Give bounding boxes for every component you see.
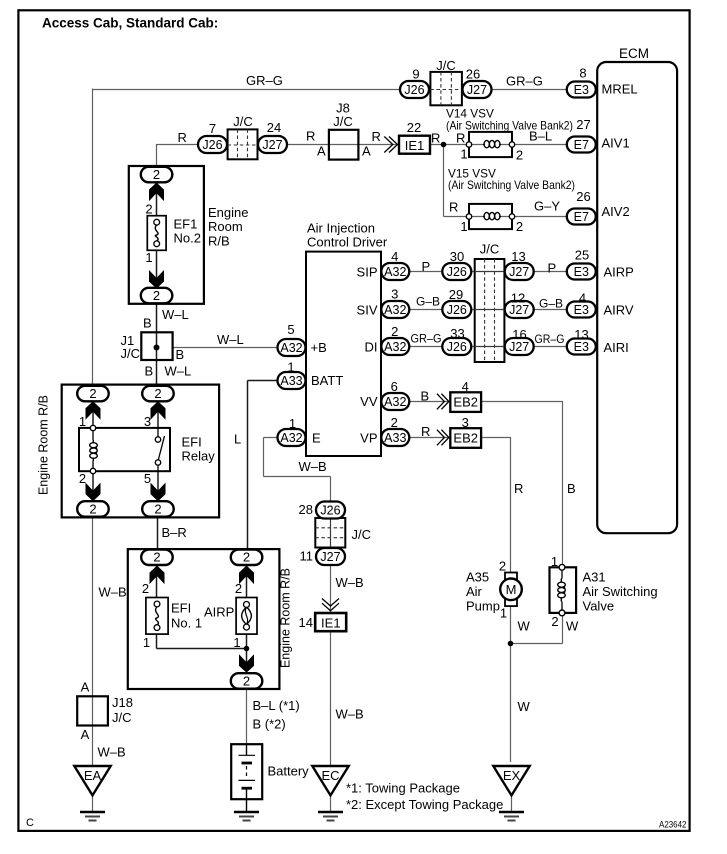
svg-text:A32: A32: [280, 431, 302, 445]
svg-text:Room: Room: [208, 219, 243, 234]
svg-text:P: P: [422, 259, 431, 274]
svg-text:A32: A32: [384, 340, 406, 354]
svg-text:6: 6: [391, 379, 398, 394]
svg-text:R: R: [421, 424, 430, 439]
svg-text:30: 30: [450, 249, 464, 264]
svg-text:W–L: W–L: [162, 307, 189, 322]
svg-text:J/C: J/C: [480, 242, 500, 257]
svg-text:Valve: Valve: [583, 599, 615, 614]
svg-text:VV: VV: [360, 394, 378, 409]
svg-text:J26: J26: [447, 303, 467, 317]
svg-text:2: 2: [153, 167, 160, 182]
svg-text:A32: A32: [384, 265, 406, 279]
svg-text:W–B: W–B: [336, 575, 364, 590]
svg-text:J27: J27: [320, 550, 340, 564]
svg-text:29: 29: [449, 287, 463, 302]
svg-text:J27: J27: [509, 265, 529, 279]
svg-text:1: 1: [460, 147, 467, 162]
svg-text:1: 1: [500, 606, 507, 621]
svg-text:*2: Except Towing Package: *2: Except Towing Package: [346, 797, 503, 812]
svg-text:1: 1: [551, 554, 558, 569]
svg-text:G–B: G–B: [539, 296, 563, 310]
svg-text:A32: A32: [384, 395, 406, 409]
svg-text:2: 2: [391, 415, 398, 430]
svg-text:IE1: IE1: [405, 138, 425, 153]
svg-text:B: B: [145, 363, 154, 378]
svg-text:E7: E7: [574, 210, 589, 224]
svg-text:Control Driver: Control Driver: [307, 235, 388, 250]
svg-text:W–B: W–B: [336, 707, 364, 722]
svg-text:Relay: Relay: [182, 449, 216, 464]
svg-text:Air: Air: [466, 584, 483, 599]
svg-text:2: 2: [79, 471, 86, 486]
svg-text:GR–G: GR–G: [535, 334, 565, 346]
svg-text:26: 26: [576, 189, 590, 204]
svg-text:9: 9: [412, 67, 419, 82]
svg-text:13: 13: [511, 249, 525, 264]
svg-text:R: R: [456, 131, 465, 146]
svg-text:7: 7: [209, 121, 216, 136]
svg-text:EB2: EB2: [453, 430, 478, 445]
svg-text:B: B: [176, 347, 185, 362]
svg-text:A33: A33: [384, 431, 406, 445]
svg-text:J18: J18: [112, 695, 133, 710]
svg-text:C: C: [26, 817, 34, 829]
svg-text:2: 2: [89, 386, 96, 401]
svg-text:A32: A32: [384, 303, 406, 317]
svg-text:(Air Switching Valve Bank2): (Air Switching Valve Bank2): [446, 119, 573, 133]
svg-text:J/C: J/C: [112, 710, 132, 725]
svg-text:R: R: [514, 481, 523, 496]
svg-text:AIV2: AIV2: [602, 204, 630, 219]
svg-text:13: 13: [574, 327, 588, 342]
svg-text:B: B: [567, 481, 576, 496]
svg-text:J26: J26: [447, 265, 467, 279]
svg-text:1: 1: [289, 416, 296, 431]
svg-text:1: 1: [145, 250, 152, 265]
svg-text:J27: J27: [262, 138, 282, 152]
svg-text:1: 1: [460, 219, 467, 234]
svg-text:2: 2: [154, 386, 161, 401]
svg-text:B (*2): B (*2): [253, 717, 286, 732]
svg-text:R/B: R/B: [208, 234, 230, 249]
svg-text:IE1: IE1: [321, 616, 341, 631]
svg-text:B–L: B–L: [529, 129, 552, 144]
svg-text:1: 1: [143, 635, 150, 650]
svg-text:J26: J26: [202, 138, 222, 152]
svg-text:4: 4: [579, 291, 586, 306]
svg-text:EA: EA: [84, 768, 102, 783]
svg-text:E: E: [312, 430, 321, 445]
svg-text:A: A: [362, 144, 371, 159]
svg-text:Air Injection: Air Injection: [307, 221, 375, 236]
svg-text:W–L: W–L: [165, 363, 192, 378]
svg-text:G–B: G–B: [416, 294, 440, 308]
svg-text:W–L: W–L: [217, 332, 244, 347]
svg-text:2: 2: [145, 202, 152, 217]
svg-text:J/C: J/C: [436, 58, 456, 73]
svg-text:W–B: W–B: [299, 459, 327, 474]
svg-text:11: 11: [300, 549, 314, 564]
svg-text:BATT: BATT: [311, 373, 343, 388]
svg-text:Engine Room R/B: Engine Room R/B: [279, 568, 293, 668]
svg-text:A: A: [81, 727, 90, 742]
svg-text:2: 2: [516, 219, 523, 234]
svg-text:R: R: [449, 200, 458, 215]
svg-text:5: 5: [287, 322, 294, 337]
svg-text:EB2: EB2: [453, 395, 478, 410]
svg-text:AIRP: AIRP: [204, 605, 234, 620]
svg-text:Engine Room R/B: Engine Room R/B: [37, 395, 51, 495]
svg-text:EF1: EF1: [174, 217, 198, 232]
svg-text:2: 2: [243, 673, 250, 688]
svg-text:Pump: Pump: [466, 599, 500, 614]
svg-text:27: 27: [576, 117, 590, 132]
svg-text:EFI: EFI: [171, 601, 191, 616]
svg-text:No. 1: No. 1: [171, 616, 202, 631]
svg-text:B–L (*1): B–L (*1): [253, 698, 300, 713]
svg-text:SIV: SIV: [357, 303, 378, 318]
svg-text:VP: VP: [360, 431, 377, 446]
svg-text:A23642: A23642: [659, 820, 687, 831]
svg-text:Access Cab, Standard Cab:: Access Cab, Standard Cab:: [42, 15, 218, 30]
svg-text:2: 2: [154, 501, 161, 516]
svg-text:*1: Towing Package: *1: Towing Package: [346, 780, 460, 795]
svg-text:W–B: W–B: [98, 745, 126, 760]
svg-text:3: 3: [391, 287, 398, 302]
svg-text:EC: EC: [321, 768, 339, 783]
svg-text:EX: EX: [503, 768, 521, 783]
svg-text:W–B: W–B: [99, 585, 127, 600]
svg-text:28: 28: [299, 502, 313, 517]
svg-text:A35: A35: [466, 570, 489, 585]
svg-text:GR–G: GR–G: [246, 73, 283, 88]
svg-text:W: W: [518, 619, 531, 634]
svg-text:EFI: EFI: [182, 435, 202, 450]
svg-text:B–R: B–R: [162, 525, 187, 540]
svg-text:26: 26: [466, 67, 480, 82]
svg-text:L: L: [234, 432, 241, 447]
svg-text:A: A: [81, 680, 90, 695]
svg-text:8: 8: [579, 66, 586, 81]
svg-text:M: M: [506, 582, 517, 597]
svg-text:B: B: [143, 316, 152, 331]
svg-text:E3: E3: [574, 265, 589, 279]
svg-text:2: 2: [551, 614, 558, 629]
svg-text:G–Y: G–Y: [534, 199, 560, 214]
svg-text:14: 14: [299, 615, 313, 630]
svg-text:AIV1: AIV1: [602, 136, 630, 151]
svg-text:AIRP: AIRP: [604, 264, 634, 279]
svg-text:22: 22: [407, 120, 421, 135]
svg-text:25: 25: [575, 248, 589, 263]
svg-text:2: 2: [243, 550, 250, 565]
svg-text:R: R: [431, 131, 440, 146]
svg-text:J/C: J/C: [233, 114, 253, 129]
svg-text:AIRI: AIRI: [604, 340, 629, 355]
svg-text:2: 2: [153, 550, 160, 565]
svg-text:J26: J26: [447, 340, 467, 354]
svg-text:(Air Switching Valve Bank2): (Air Switching Valve Bank2): [448, 178, 575, 192]
svg-text:2: 2: [142, 581, 149, 596]
svg-text:A33: A33: [280, 374, 302, 388]
svg-text:24: 24: [267, 120, 281, 135]
svg-text:B: B: [421, 389, 430, 404]
svg-text:J/C: J/C: [121, 346, 141, 361]
svg-text:GR–G: GR–G: [506, 74, 543, 89]
svg-text:AIRV: AIRV: [604, 302, 634, 317]
svg-text:2: 2: [153, 288, 160, 303]
svg-text:R: R: [306, 129, 315, 144]
svg-text:4: 4: [462, 379, 469, 394]
svg-text:3: 3: [462, 415, 469, 430]
svg-text:A32: A32: [280, 341, 302, 355]
svg-text:J26: J26: [320, 503, 340, 517]
svg-text:16: 16: [512, 327, 526, 342]
svg-text:1: 1: [287, 360, 294, 375]
svg-text:1: 1: [233, 635, 240, 650]
svg-text:Air Switching: Air Switching: [583, 584, 658, 599]
svg-text:3: 3: [144, 414, 151, 429]
svg-text:J27: J27: [467, 83, 487, 97]
svg-text:2: 2: [499, 559, 506, 574]
svg-text:Engine: Engine: [208, 205, 248, 220]
svg-text:33: 33: [450, 326, 464, 341]
svg-text:E3: E3: [574, 83, 589, 97]
svg-text:5: 5: [144, 471, 151, 486]
svg-text:No.2: No.2: [174, 231, 201, 246]
svg-text:P: P: [548, 261, 557, 276]
svg-text:SIP: SIP: [357, 265, 378, 280]
svg-text:2: 2: [516, 148, 523, 163]
svg-text:J/C: J/C: [352, 527, 372, 542]
svg-text:R: R: [178, 130, 187, 145]
svg-text:2: 2: [235, 581, 242, 596]
svg-text:+B: +B: [311, 340, 327, 355]
svg-text:2: 2: [89, 501, 96, 516]
svg-text:12: 12: [511, 291, 525, 306]
svg-text:ECM: ECM: [619, 46, 649, 61]
svg-text:J26: J26: [404, 83, 424, 97]
svg-text:GR–G: GR–G: [411, 334, 442, 346]
svg-text:DI: DI: [365, 340, 378, 355]
svg-text:MREL: MREL: [602, 82, 638, 97]
svg-text:J/C: J/C: [333, 114, 353, 129]
svg-text:W: W: [518, 699, 531, 714]
svg-text:1: 1: [79, 414, 86, 429]
svg-text:E7: E7: [574, 138, 589, 152]
svg-text:4: 4: [391, 249, 398, 264]
svg-text:W: W: [566, 619, 579, 634]
svg-text:A: A: [317, 144, 326, 159]
svg-text:Battery: Battery: [268, 764, 310, 779]
svg-text:R: R: [372, 129, 381, 144]
svg-text:2: 2: [391, 324, 398, 339]
svg-text:A31: A31: [583, 570, 606, 585]
